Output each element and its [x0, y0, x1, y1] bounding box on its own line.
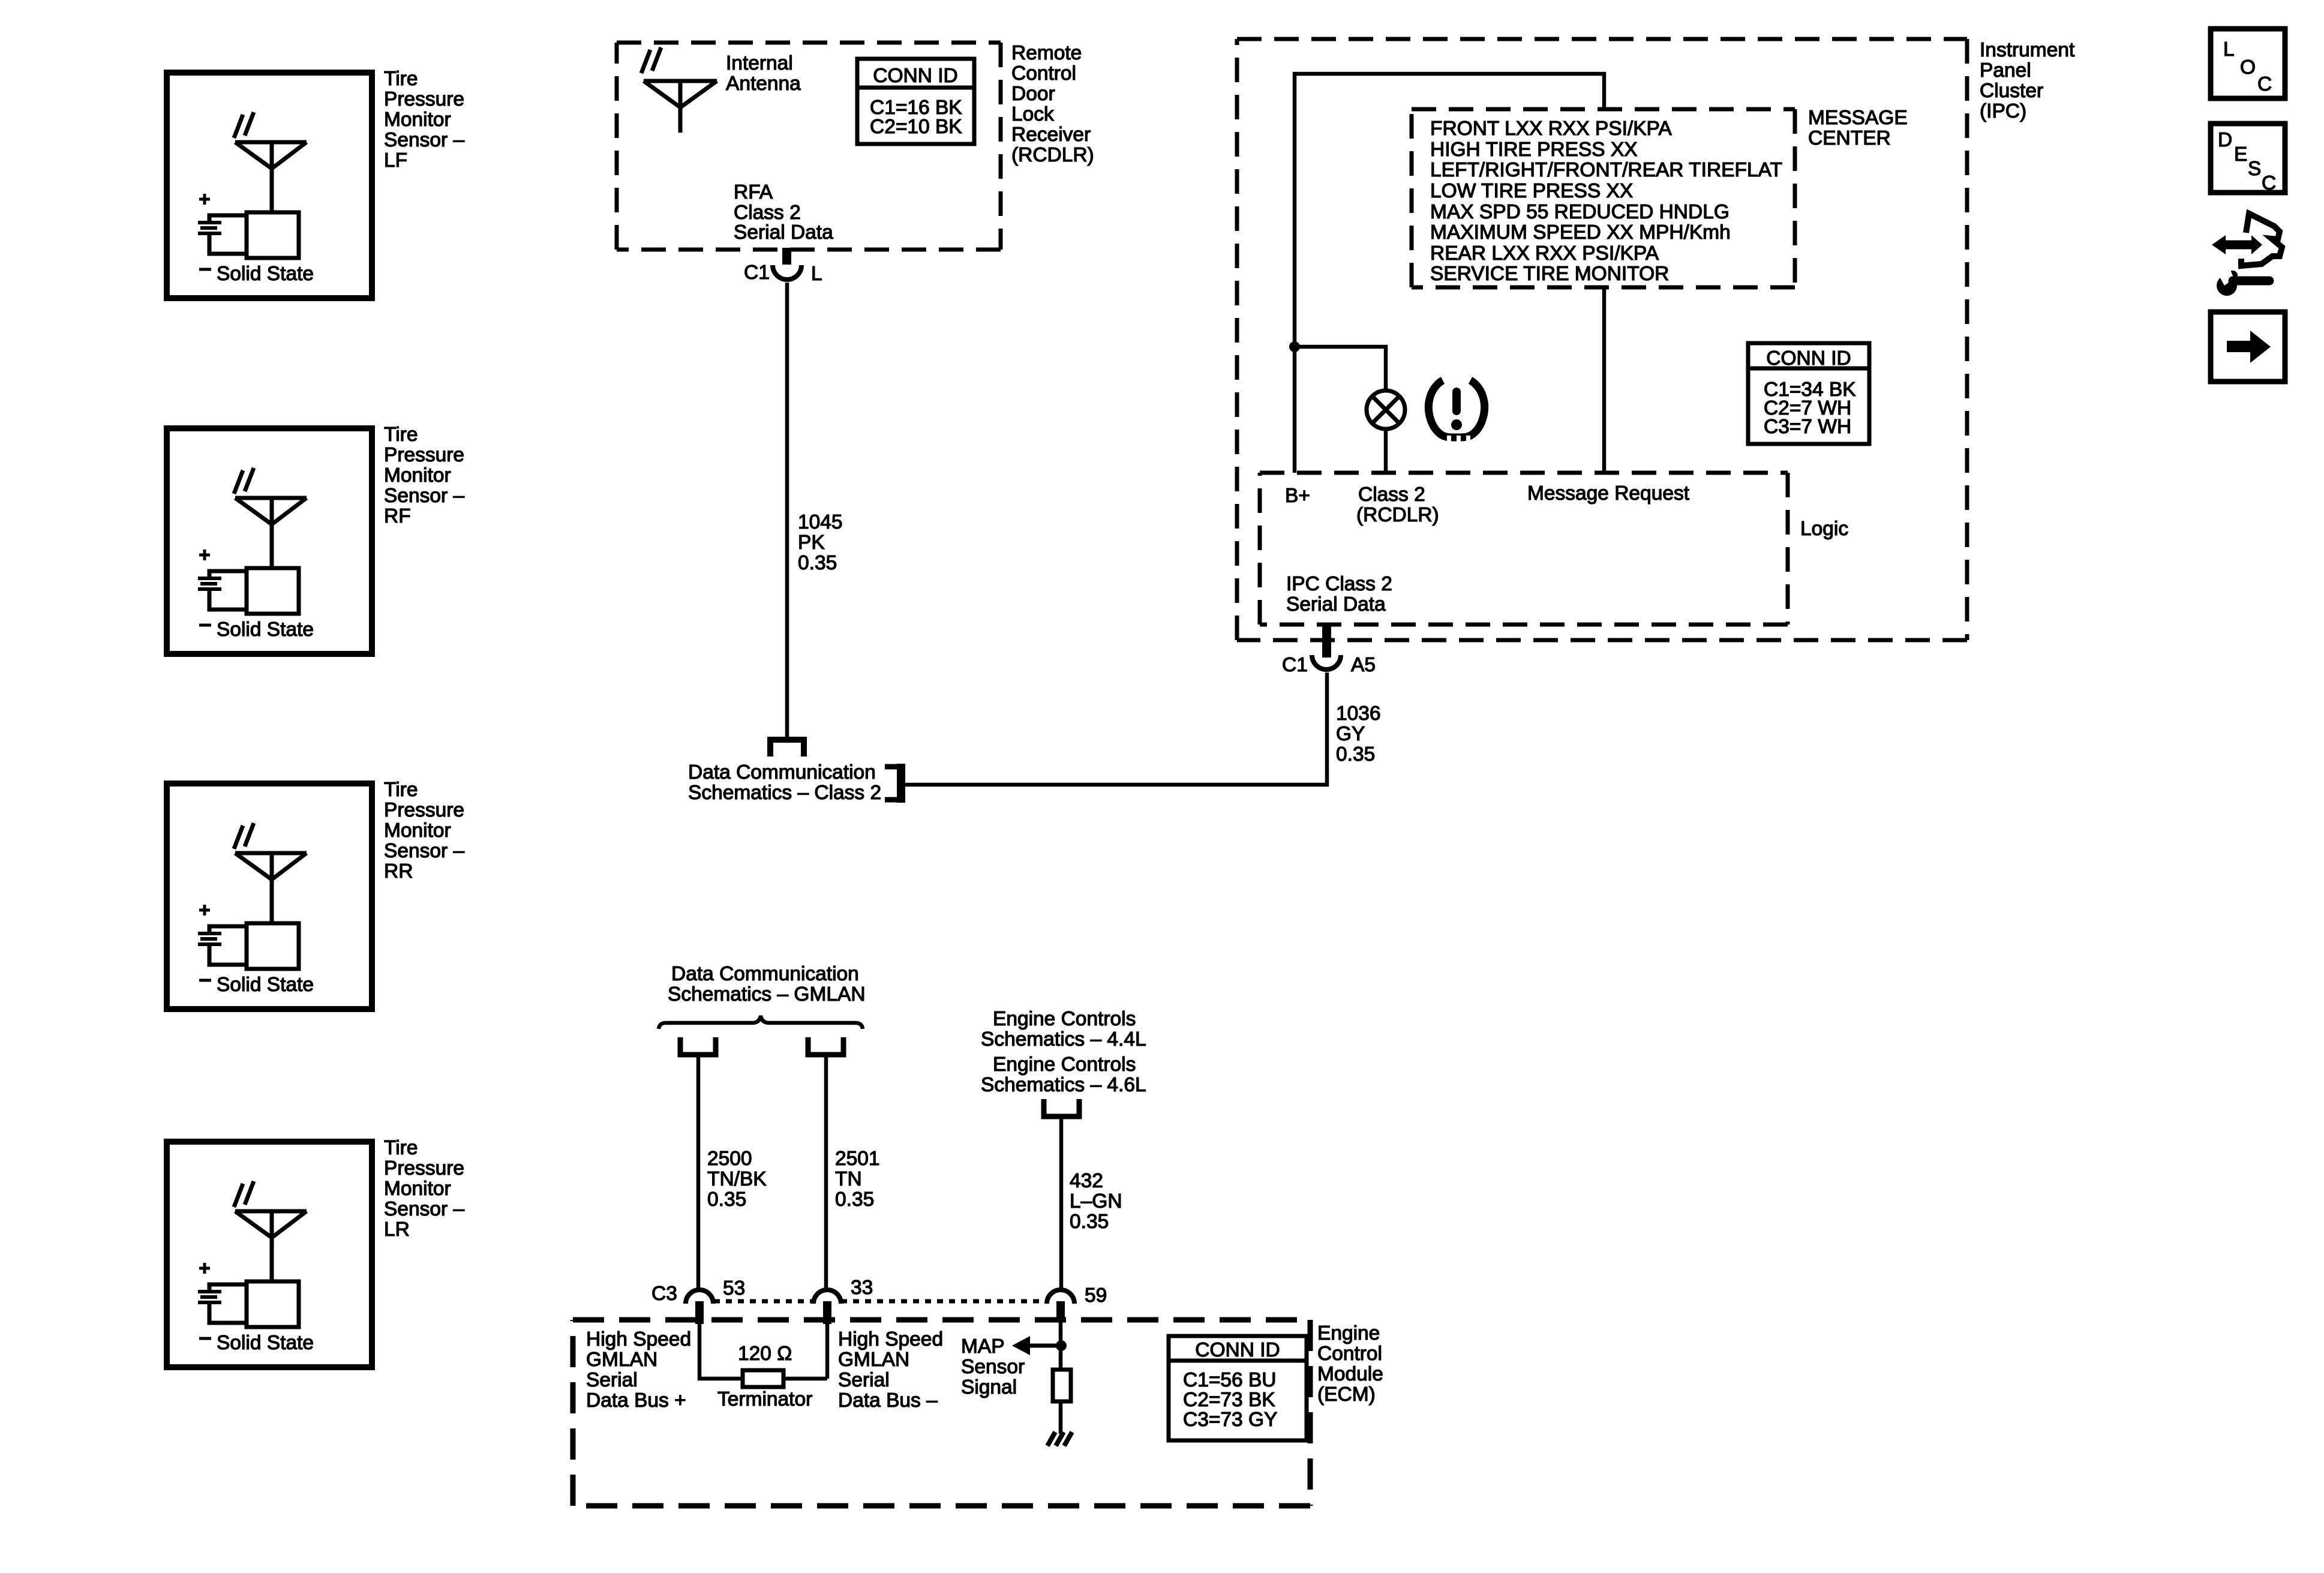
- label Data Communication Schematics - Class 2: [688, 761, 881, 804]
- svg-text:Module: Module: [1317, 1363, 1383, 1385]
- TPMS warning icon: [1428, 380, 1484, 442]
- wire 1036 GY from bracket to IPC A5: [905, 673, 1327, 785]
- svg-text:Panel: Panel: [1980, 59, 2031, 82]
- svg-text:Solid State: Solid State: [217, 1332, 314, 1354]
- svg-text:Receiver: Receiver: [1011, 124, 1091, 146]
- svg-text:Serial Data: Serial Data: [1286, 593, 1386, 616]
- svg-text:Sensor: Sensor: [961, 1356, 1025, 1378]
- ECM connector 33 pin: [823, 1301, 831, 1324]
- ECM connector 53 socket: [686, 1290, 713, 1304]
- svg-text:Schematics – GMLAN: Schematics – GMLAN: [668, 983, 866, 1005]
- sensor box outline: [167, 784, 372, 1009]
- svg-text:Serial: Serial: [838, 1369, 890, 1391]
- svg-text:MAP: MAP: [961, 1335, 1005, 1358]
- antenna: [235, 1211, 307, 1280]
- svg-text:L: L: [811, 263, 822, 285]
- IPC connector C1 socket: [1312, 655, 1341, 670]
- svg-text:Monitor: Monitor: [384, 464, 451, 487]
- antenna: [235, 853, 307, 921]
- svg-text:(RCDLR): (RCDLR): [1356, 504, 1439, 526]
- antenna radiation marks: [234, 112, 254, 138]
- svg-text:PK: PK: [798, 532, 825, 554]
- wire battery minus to module: [209, 944, 247, 965]
- internal antenna symbol: [644, 81, 717, 133]
- wire B+ feed: [1295, 74, 1604, 473]
- svg-text:GMLAN: GMLAN: [838, 1349, 909, 1371]
- svg-text:MESSAGE: MESSAGE: [1808, 107, 1908, 129]
- svg-text:C2=10 BK: C2=10 BK: [870, 116, 962, 138]
- battery minus label: [199, 979, 211, 982]
- svg-text:0.35: 0.35: [798, 552, 837, 574]
- svg-text:Data Bus –: Data Bus –: [838, 1389, 938, 1412]
- svg-text:(RCDLR): (RCDLR): [1011, 144, 1094, 166]
- wire battery plus to module: [209, 1284, 247, 1292]
- svg-text:Solid State: Solid State: [217, 974, 314, 996]
- sensor box outline: [167, 73, 372, 298]
- message center dashed box: [1412, 109, 1795, 287]
- svg-text:120 Ω: 120 Ω: [738, 1343, 792, 1365]
- RCDLR connector C1 socket: [773, 265, 801, 280]
- ECM connector 59 pin: [1056, 1301, 1065, 1319]
- svg-text:O: O: [2240, 56, 2256, 79]
- wire terminator right: [783, 1324, 827, 1379]
- svg-text:MAXIMUM SPEED XX MPH/Kmh: MAXIMUM SPEED XX MPH/Kmh: [1430, 221, 1731, 244]
- svg-text:Pressure: Pressure: [384, 1157, 464, 1179]
- label Data Communication Schematics - GMLAN: [668, 963, 866, 1005]
- next-page arrow box: [2211, 312, 2285, 382]
- svg-text:Sensor –: Sensor –: [384, 129, 464, 151]
- service icon double arrow: [2212, 235, 2262, 254]
- svg-text:SERVICE TIRE MONITOR: SERVICE TIRE MONITOR: [1430, 263, 1669, 285]
- wire message request: [1602, 287, 1607, 473]
- service icon wrench: [2217, 268, 2269, 296]
- svg-text:Schematics – Class 2: Schematics – Class 2: [688, 782, 881, 804]
- svg-text:Monitor: Monitor: [384, 819, 451, 842]
- wire battery minus to module: [209, 1302, 247, 1323]
- message center text lines: [1430, 118, 1782, 285]
- wire battery plus to module: [209, 926, 247, 933]
- wire 2500 TN/BK: [696, 1057, 701, 1288]
- svg-text:LR: LR: [384, 1218, 410, 1241]
- svg-text:2500: 2500: [707, 1148, 752, 1170]
- svg-text:Engine: Engine: [1317, 1322, 1380, 1344]
- DESC icon box: [2211, 124, 2285, 194]
- MAP signal arrow: [1012, 1336, 1061, 1355]
- svg-text:C3=73 GY: C3=73 GY: [1183, 1409, 1277, 1431]
- sensor box outline: [167, 1142, 372, 1367]
- ECM connector 33 socket: [813, 1290, 841, 1304]
- antenna radiation marks: [234, 468, 254, 494]
- svg-text:Data Communication: Data Communication: [671, 963, 859, 985]
- svg-text:RR: RR: [384, 860, 413, 882]
- svg-text:RFA: RFA: [734, 181, 773, 203]
- svg-text:Tire: Tire: [384, 779, 418, 801]
- wire 2501 TN: [824, 1057, 828, 1288]
- IPC CONN ID table: [1748, 343, 1869, 444]
- svg-text:Internal: Internal: [726, 52, 793, 74]
- label Remote Control Door Lock Receiver (RCDLR): [1011, 42, 1094, 166]
- svg-text:Tire: Tire: [384, 68, 418, 90]
- svg-text:Tire: Tire: [384, 1137, 418, 1159]
- battery minus label: [199, 1337, 211, 1340]
- antenna: [235, 498, 307, 566]
- svg-text:Class 2: Class 2: [734, 202, 801, 224]
- svg-text:1036: 1036: [1336, 703, 1381, 725]
- wire label 1036 GY 0.35: [1336, 703, 1381, 766]
- solid state module box: [247, 923, 299, 969]
- svg-text:Door: Door: [1011, 83, 1055, 105]
- wire battery minus to module: [209, 589, 247, 610]
- label IPC Class 2 Serial Data: [1286, 573, 1392, 616]
- MAP pull resistor: [1053, 1370, 1071, 1401]
- svg-text:432: 432: [1070, 1170, 1103, 1192]
- ECM CONN ID table: [1169, 1336, 1307, 1440]
- svg-text:C3: C3: [651, 1283, 677, 1305]
- solid state module box: [247, 568, 299, 614]
- svg-text:0.35: 0.35: [835, 1188, 874, 1211]
- svg-text:E: E: [2234, 143, 2247, 166]
- svg-text:CONN ID: CONN ID: [873, 65, 957, 87]
- svg-text:0.35: 0.35: [707, 1188, 746, 1211]
- battery: [198, 1292, 221, 1302]
- svg-text:C1=56 BU: C1=56 BU: [1183, 1369, 1277, 1391]
- IPC dashed box: [1237, 39, 1967, 640]
- RCDLR CONN ID table: [857, 59, 974, 144]
- svg-text:B+: B+: [1285, 485, 1310, 507]
- ECM connector dotted line: [714, 1299, 1047, 1304]
- wire battery minus to module: [209, 233, 247, 254]
- label MAP Sensor Signal: [961, 1335, 1025, 1398]
- svg-text:Schematics – 4.6L: Schematics – 4.6L: [981, 1074, 1146, 1096]
- svg-text:GY: GY: [1336, 723, 1365, 745]
- svg-text:0.35: 0.35: [1336, 743, 1375, 766]
- svg-text:CONN ID: CONN ID: [1766, 347, 1851, 370]
- svg-text:Monitor: Monitor: [384, 1178, 451, 1200]
- svg-text:Pressure: Pressure: [384, 88, 464, 110]
- battery minus label: [199, 624, 211, 627]
- wire label 1045 PK 0.35: [798, 511, 843, 574]
- svg-text:Antenna: Antenna: [726, 73, 801, 95]
- svg-text:Data Communication: Data Communication: [688, 761, 876, 784]
- svg-text:Serial: Serial: [586, 1369, 638, 1391]
- wire label 432 L-GN 0.35: [1070, 1170, 1122, 1233]
- wire label 2500 TN/BK 0.35: [707, 1148, 767, 1211]
- internal antenna radiation marks: [641, 47, 661, 73]
- label Instrument Panel Cluster (IPC): [1980, 39, 2075, 122]
- svg-text:RF: RF: [384, 505, 411, 527]
- GMLAN off-page bracket bus +: [680, 1037, 716, 1055]
- label High Speed GMLAN Serial Data Bus +: [586, 1328, 691, 1412]
- label Engine Controls Schematics 4.6L: [981, 1053, 1146, 1096]
- antenna radiation marks: [234, 1181, 254, 1207]
- ECM dashed box: [573, 1320, 1310, 1506]
- battery: [198, 933, 221, 944]
- svg-text:Cluster: Cluster: [1980, 80, 2043, 102]
- svg-text:Sensor –: Sensor –: [384, 840, 464, 862]
- GMLAN off-page bracket bus -: [808, 1037, 843, 1055]
- svg-text:Terminator: Terminator: [717, 1388, 812, 1410]
- svg-text:S: S: [2248, 158, 2261, 180]
- svg-text:1045: 1045: [798, 511, 843, 533]
- svg-text:TN: TN: [835, 1168, 862, 1190]
- solid state module box: [247, 1281, 299, 1327]
- svg-text:Monitor: Monitor: [384, 109, 451, 131]
- svg-text:C: C: [2257, 73, 2272, 95]
- svg-text:C3=7 WH: C3=7 WH: [1764, 416, 1851, 438]
- svg-text:Instrument: Instrument: [1980, 39, 2075, 61]
- svg-text:IPC Class 2: IPC Class 2: [1286, 573, 1392, 595]
- svg-text:Tire: Tire: [384, 424, 418, 446]
- battery: [198, 223, 221, 233]
- svg-text:(IPC): (IPC): [1980, 100, 2026, 122]
- svg-text:Schematics – 4.4L: Schematics – 4.4L: [981, 1028, 1146, 1050]
- svg-text:C1: C1: [744, 262, 770, 284]
- svg-text:GMLAN: GMLAN: [586, 1349, 657, 1371]
- service icon part outline: [2241, 214, 2282, 266]
- ECM connector 59 socket: [1047, 1290, 1074, 1304]
- IPC logic dashed box: [1260, 473, 1788, 625]
- svg-text:D: D: [2218, 129, 2232, 151]
- svg-text:CENTER: CENTER: [1808, 127, 1891, 149]
- svg-text:Remote: Remote: [1011, 42, 1082, 64]
- class 2 destination bracket: [885, 764, 901, 803]
- svg-text:LEFT/RIGHT/FRONT/REAR TIREFLAT: LEFT/RIGHT/FRONT/REAR TIREFLAT: [1430, 159, 1782, 181]
- svg-text:LOW TIRE PRESS XX: LOW TIRE PRESS XX: [1430, 180, 1633, 202]
- svg-text:Lock: Lock: [1011, 103, 1054, 125]
- label Engine Control Module (ECM): [1317, 1322, 1383, 1406]
- svg-text:CONN ID: CONN ID: [1195, 1339, 1280, 1361]
- wire terminator left: [699, 1324, 743, 1379]
- svg-text:HIGH TIRE PRESS XX: HIGH TIRE PRESS XX: [1430, 139, 1638, 161]
- svg-text:L–GN: L–GN: [1070, 1190, 1122, 1212]
- tire pressure monitor sensor LR: [167, 1137, 464, 1367]
- battery B+ label: [199, 905, 210, 915]
- svg-text:Engine Controls: Engine Controls: [993, 1008, 1136, 1030]
- svg-text:Serial Data: Serial Data: [734, 221, 833, 244]
- label RFA Class 2 Serial Data: [734, 181, 833, 244]
- RCDLR dashed box: [617, 43, 1001, 250]
- svg-text:Pressure: Pressure: [384, 444, 464, 466]
- tire pressure monitor sensor LF: [167, 68, 464, 298]
- off-page bracket class 2: [770, 740, 804, 757]
- label MESSAGE CENTER: [1808, 107, 1908, 149]
- svg-text:TN/BK: TN/BK: [707, 1168, 767, 1190]
- svg-text:Control: Control: [1317, 1343, 1382, 1365]
- antenna radiation marks: [234, 823, 254, 849]
- battery: [198, 578, 221, 589]
- battery B+ label: [199, 194, 210, 205]
- svg-text:L: L: [2223, 38, 2235, 61]
- svg-text:53: 53: [723, 1277, 745, 1299]
- svg-text:0.35: 0.35: [1070, 1211, 1109, 1233]
- wire label 2501 TN 0.35: [835, 1148, 880, 1211]
- svg-text:FRONT LXX RXX PSI/KPA: FRONT LXX RXX PSI/KPA: [1430, 118, 1672, 140]
- svg-text:Control: Control: [1011, 62, 1076, 85]
- engine controls off-page bracket: [1044, 1099, 1079, 1116]
- svg-text:Solid State: Solid State: [217, 263, 314, 285]
- antenna: [235, 142, 307, 211]
- indicator lamp: [1367, 391, 1405, 429]
- svg-text:C2=73 BK: C2=73 BK: [1183, 1389, 1275, 1411]
- label Engine Controls Schematics 4.4L: [981, 1008, 1146, 1050]
- svg-text:High Speed: High Speed: [586, 1328, 691, 1350]
- svg-text:Engine Controls: Engine Controls: [993, 1053, 1136, 1076]
- tire pressure monitor sensor RF: [167, 424, 464, 654]
- wire 59 to resistor: [1059, 1319, 1063, 1370]
- junction node: [1289, 341, 1300, 352]
- svg-text:C1: C1: [1282, 654, 1308, 676]
- svg-text:MAX SPD 55 REDUCED HNDLG: MAX SPD 55 REDUCED HNDLG: [1430, 201, 1730, 223]
- GMLAN brace: [659, 1016, 863, 1029]
- svg-text:A5: A5: [1351, 654, 1376, 676]
- svg-text:LF: LF: [384, 149, 407, 172]
- svg-text:Logic: Logic: [1800, 518, 1848, 540]
- RCDLR connector C1 pin: [782, 248, 791, 265]
- wire lamp to logic: [1384, 429, 1388, 473]
- svg-text:2501: 2501: [835, 1148, 880, 1170]
- wire 1045 PK: [785, 283, 789, 737]
- svg-text:Sensor –: Sensor –: [384, 1198, 464, 1220]
- svg-text:Pressure: Pressure: [384, 799, 464, 821]
- ground: [1047, 1432, 1072, 1446]
- label Class 2 (RCDLR): [1356, 484, 1439, 526]
- wire resistor to ground: [1059, 1401, 1063, 1434]
- svg-text:33: 33: [851, 1277, 873, 1299]
- battery minus label: [199, 268, 211, 271]
- sensor box outline: [167, 428, 372, 654]
- wire branch to indicator lamp: [1295, 347, 1386, 391]
- battery B+ label: [199, 1263, 210, 1274]
- tire pressure monitor sensor RR: [167, 779, 464, 1009]
- svg-text:REAR LXX RXX PSI/KPA: REAR LXX RXX PSI/KPA: [1430, 242, 1659, 265]
- terminator resistor: [743, 1370, 783, 1387]
- svg-text:C: C: [2262, 172, 2276, 194]
- wire battery plus to module: [209, 215, 247, 223]
- svg-text:Message Request: Message Request: [1527, 482, 1690, 505]
- junction node 59: [1056, 1340, 1067, 1351]
- label High Speed GMLAN Serial Data Bus -: [838, 1328, 943, 1412]
- svg-text:Solid State: Solid State: [217, 619, 314, 641]
- svg-text:Sensor –: Sensor –: [384, 485, 464, 507]
- svg-text:Class 2: Class 2: [1358, 484, 1425, 506]
- svg-text:59: 59: [1085, 1284, 1107, 1307]
- wire 432 L-GN: [1059, 1119, 1064, 1288]
- LOC icon box: [2211, 29, 2285, 98]
- battery B+ label: [199, 550, 210, 560]
- wire battery plus to module: [209, 571, 247, 578]
- svg-text:Data Bus +: Data Bus +: [586, 1389, 686, 1412]
- svg-text:(ECM): (ECM): [1317, 1383, 1376, 1406]
- svg-text:High Speed: High Speed: [838, 1328, 943, 1350]
- ECM connector 53 pin: [695, 1301, 704, 1324]
- svg-text:Signal: Signal: [961, 1376, 1017, 1398]
- solid state module box: [247, 212, 299, 258]
- IPC connector C1 pin: [1322, 623, 1331, 658]
